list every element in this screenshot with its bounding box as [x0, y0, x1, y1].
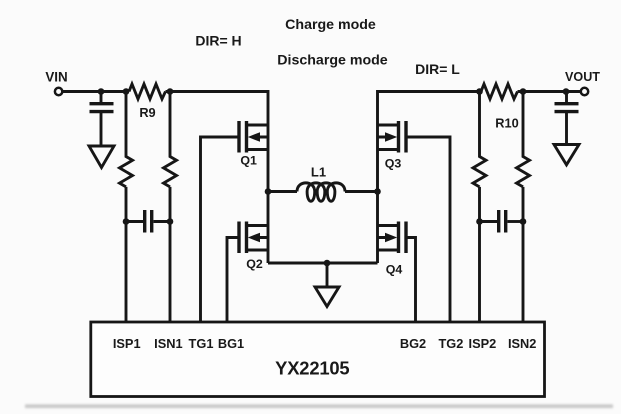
resistor (current sense divider, ISN2 column)	[517, 92, 530, 187]
svg-text:ISP1: ISP1	[113, 336, 141, 351]
wire: ISN2 column to IC	[522, 187, 525, 322]
node junction at R10 right / ISN2 column	[520, 88, 527, 95]
resistor (current sense divider, ISP2 column)	[473, 92, 486, 187]
resistor (current sense divider, ISN1 column)	[164, 92, 177, 187]
svg-text:L1: L1	[311, 165, 326, 180]
svg-text:Charge mode: Charge mode	[285, 17, 376, 33]
ground (input)	[89, 146, 114, 168]
wire: Q3 gate to TG2	[406, 137, 450, 322]
node junction left sense cap (ISN1 side)	[167, 218, 174, 225]
transistor Q3	[378, 121, 407, 171]
node junction right sense cap (ISN2 side)	[520, 218, 527, 225]
wire: rail R10 to VOUT	[518, 90, 581, 93]
svg-text:VOUT: VOUT	[565, 70, 600, 84]
wire: ground row	[268, 262, 378, 265]
inductor L1	[297, 183, 345, 201]
capacitor (left sense filter)	[126, 220, 143, 223]
node SW1 junction	[265, 188, 272, 195]
node junction left sense cap (ISP1 side)	[123, 218, 130, 225]
wire: Q1 gate to TG1	[201, 137, 240, 322]
node SW2 junction	[374, 188, 381, 195]
transistor Q2	[239, 222, 268, 271]
wire: ISP1 column to IC	[125, 187, 128, 322]
node junction at input capacitor	[98, 88, 105, 95]
svg-text:R10: R10	[495, 116, 518, 131]
wire: SW1 to L1	[268, 190, 297, 193]
wire: Q3 riser and VOUT rail	[378, 92, 482, 192]
wire: ISP2 column to IC	[478, 187, 481, 322]
wire: Q2 riser to ground row	[267, 192, 270, 264]
IC U1 controller YX22105	[91, 322, 545, 397]
wire: L1 to SW2	[345, 190, 378, 193]
ground (output)	[554, 145, 579, 165]
wire: rail from R9 to Q1 drain	[166, 92, 269, 192]
svg-text:Q3: Q3	[385, 157, 402, 171]
svg-text:DIR= L: DIR= L	[415, 61, 460, 77]
svg-text:ISN1: ISN1	[154, 336, 182, 351]
resistor (current sense divider, ISP1 column)	[120, 92, 133, 187]
svg-text:Discharge mode: Discharge mode	[277, 53, 387, 69]
svg-text:DIR= H: DIR= H	[195, 32, 241, 48]
svg-text:BG1: BG1	[218, 336, 244, 351]
svg-text:Q2: Q2	[246, 257, 263, 271]
transistor Q4	[378, 222, 407, 277]
svg-text:ISP2: ISP2	[469, 336, 497, 351]
wire: VIN rail	[63, 90, 129, 93]
capacitor (output bypass)	[565, 92, 568, 103]
capacitor (right sense filter)	[480, 220, 498, 223]
resistor R10	[481, 84, 518, 99]
node ground junction	[324, 260, 331, 267]
svg-text:VIN: VIN	[45, 69, 67, 84]
wire: Q4 riser	[376, 192, 379, 264]
svg-text:ISN2: ISN2	[508, 336, 536, 351]
wire: Q2 gate to BG1	[227, 238, 239, 323]
svg-text:Q1: Q1	[240, 154, 257, 168]
node junction at R10 left / ISP2 column	[476, 88, 483, 95]
svg-text:TG1: TG1	[189, 336, 214, 351]
transistor Q1	[239, 121, 268, 168]
node junction right sense cap (ISP2 side)	[476, 218, 483, 225]
svg-text:Q4: Q4	[386, 262, 403, 276]
svg-text:R9: R9	[139, 105, 155, 120]
capacitor (input bypass)	[100, 92, 103, 103]
node junction at R9 right / ISN1 column	[167, 88, 174, 95]
node junction at output capacitor	[563, 88, 570, 95]
ground (power stage)	[326, 263, 329, 286]
wire: ISN1 column to IC	[169, 187, 172, 322]
svg-text:YX22105: YX22105	[275, 358, 349, 379]
resistor R9	[129, 84, 166, 99]
node junction at R9 left / ISP1 column	[123, 88, 130, 95]
svg-text:TG2: TG2	[438, 336, 463, 351]
wire: Q4 gate to BG2	[406, 238, 416, 323]
svg-text:BG2: BG2	[400, 336, 426, 351]
